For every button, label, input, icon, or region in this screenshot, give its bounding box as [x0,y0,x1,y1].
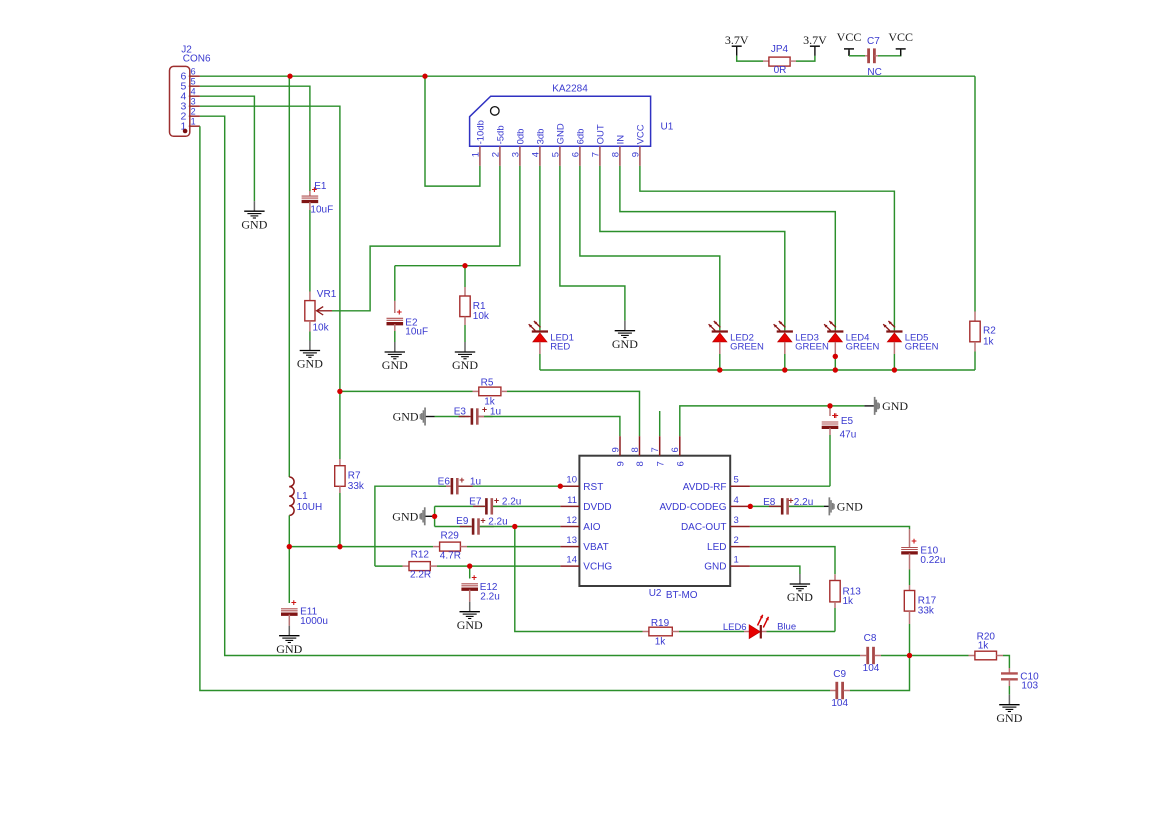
ground GND R1 [452,342,478,372]
svg-text:+: + [471,572,477,583]
net flag GND E7/E9 [392,507,425,525]
node junction LED4 lead [833,354,838,359]
wire U1 pin8 to LED4 [620,166,835,331]
svg-text:6: 6 [571,152,582,157]
svg-text:1k: 1k [978,641,990,652]
svg-text:CON6: CON6 [183,53,211,64]
wire E1 to VR1 [309,210,311,292]
wire U2 pin7 stub [659,411,661,436]
svg-text:10k: 10k [313,323,330,334]
svg-text:JP4: JP4 [771,44,789,55]
resistor R29 4.7R [433,531,467,562]
svg-text:10UH: 10UH [297,502,323,513]
svg-text:C9: C9 [833,669,846,680]
wire R1 branch [464,266,466,287]
wire LED6 to R13 column [767,631,836,633]
wire to GND flag E5 [864,405,874,407]
svg-text:3: 3 [191,96,196,106]
LED LED5 GREEN [883,321,938,370]
resistor R17 33k [904,585,936,624]
svg-text:1k: 1k [983,336,995,347]
capacitor E5 47u [822,406,857,486]
node junction R1 top [462,263,467,268]
node junction E12 top [467,564,472,569]
wire R19 to LED6 [679,631,744,633]
svg-text:VCC: VCC [635,124,646,144]
wire L1 bottom [288,515,290,546]
svg-text:9: 9 [610,447,621,452]
wire R13 to LED6 row [834,608,836,632]
svg-text:3.7V: 3.7V [725,33,749,47]
svg-text:R2: R2 [983,326,996,337]
capacitor C7 NC [865,36,882,78]
svg-text:1: 1 [191,116,196,126]
wire J2 pin5 to E1 [200,86,310,191]
node junction rail x894 [892,367,897,372]
LED LED4 GREEN [824,321,879,370]
power VCC right [888,30,913,56]
wire U2 pin3 to E10 [750,527,910,530]
svg-text:R19: R19 [651,618,670,629]
wire R29 to U2 pin13 [467,546,560,548]
wire C10 to GND [1008,686,1010,695]
power 3.7V right [803,33,827,56]
svg-text:GND: GND [452,358,478,372]
svg-text:E5: E5 [841,416,854,427]
svg-text:OUT: OUT [595,124,606,144]
wire U2 pin1 to GND [750,566,800,574]
resistor JP4 0R [763,44,796,76]
svg-text:RST: RST [583,482,603,493]
svg-text:1: 1 [734,555,739,566]
svg-text:-10db: -10db [475,120,486,144]
svg-text:GREEN: GREEN [795,341,829,352]
svg-text:GND: GND [555,123,566,144]
svg-text:LED: LED [707,542,726,553]
svg-text:R7: R7 [348,471,361,482]
svg-text:AVDD-CODEG: AVDD-CODEG [659,502,726,513]
node junction E5 top [827,403,832,408]
wire U1 pin1 to VCC rail [425,76,480,186]
wire U1 pin9 to LED5 [640,166,895,331]
svg-text:NC: NC [867,67,881,78]
svg-text:2.2u: 2.2u [502,497,521,508]
svg-text:GND: GND [241,217,267,231]
ground GND J2 pin4 [241,201,267,231]
wire E10 to R17 [909,570,911,586]
ground GND U1 pin5 [612,321,638,351]
wire R5 to U2 pin8 [507,391,640,436]
svg-text:E1: E1 [314,181,327,192]
svg-text:2: 2 [491,152,502,157]
capacitor E3 1u [454,404,501,424]
net flag GND E3 [393,408,426,426]
svg-text:7: 7 [591,152,602,157]
wire U1 pin2 to VR1 wiper [332,166,500,311]
wire E5 to U2 pin5 [750,485,830,487]
wire junction to R20 [910,655,969,657]
svg-text:GND: GND [612,337,638,351]
resistor R5 1k [340,378,507,408]
svg-text:VBAT: VBAT [583,542,608,553]
svg-text:2.2u: 2.2u [480,592,499,603]
node junction GND E7/E9 [432,514,437,519]
svg-text:+: + [459,475,464,485]
svg-text:4: 4 [531,152,542,157]
svg-text:E8: E8 [763,497,776,508]
svg-text:GND: GND [837,500,863,514]
svg-text:Blue: Blue [777,621,796,632]
wire U1 pin3 to R1/E2 [395,166,520,266]
svg-text:VCC: VCC [888,30,913,44]
svg-text:14: 14 [566,555,577,566]
capacitor E2 10uF [387,266,429,342]
svg-text:DVDD: DVDD [583,502,611,513]
svg-text:-5db: -5db [495,125,506,144]
wire R17 to C8 junction [909,624,911,656]
svg-text:10: 10 [566,475,577,486]
svg-text:1k: 1k [843,596,855,607]
wire LED bottom rail [540,369,975,371]
wire R20 to C10 [1003,656,1009,669]
wire L1 top [288,76,290,477]
wire R12 to U2 pin14 [437,565,560,567]
svg-text:1k: 1k [655,637,667,648]
potentiometer VR1 10k [305,289,337,334]
capacitor E1 10uF [302,181,334,216]
svg-text:9: 9 [616,461,627,466]
svg-text:GND: GND [882,399,908,413]
svg-text:C7: C7 [867,36,880,47]
capacitor E12 2.2u [461,566,499,602]
capacitor E10 0.22u [901,529,945,570]
svg-text:6: 6 [675,461,686,466]
wire U2 pin2 to R13 [750,547,835,575]
svg-text:+: + [397,307,403,318]
node junction AIO [512,524,517,529]
wire U1 pin7 to LED3 [600,166,785,331]
wire C9 to C8 junction [850,656,910,691]
resistor R12 2.2R [375,550,437,581]
wire C8 to junction [881,655,910,657]
svg-text:10uF: 10uF [310,205,333,216]
capacitor E8 2.2u [750,495,824,514]
LED LED1 RED [529,321,574,370]
svg-text:11: 11 [567,495,577,506]
svg-text:6: 6 [191,66,196,76]
ground GND E12 [457,602,483,632]
inductor L1 10UH [289,477,322,515]
svg-text:0db: 0db [515,129,526,145]
ground GND U2 pin1 [787,574,813,604]
svg-text:2.2u: 2.2u [488,517,507,528]
svg-text:GND: GND [276,642,302,656]
wire U2 pin6 to GND row [680,406,865,436]
svg-text:VCHG: VCHG [583,562,612,573]
svg-text:R29: R29 [441,531,460,542]
LED LED3 GREEN [774,321,829,370]
svg-text:103: 103 [1021,680,1038,691]
ground GND E11 [276,626,302,656]
ground GND C10 [996,695,1022,725]
svg-text:GND: GND [393,410,419,424]
svg-text:GND: GND [704,562,726,573]
svg-text:U2: U2 [649,588,662,599]
svg-text:7: 7 [650,447,661,452]
resistor R19 1k [643,618,680,648]
LED LED2 GREEN [709,321,764,370]
svg-text:104: 104 [831,698,848,709]
svg-text:R12: R12 [411,550,430,561]
svg-text:GND: GND [457,618,483,632]
svg-text:+: + [494,495,499,505]
svg-text:2.2u: 2.2u [794,497,813,508]
svg-text:+: + [480,515,485,525]
wire E8 to GND flag [824,505,829,507]
wire E3 to U2 pin9 [484,417,620,437]
svg-text:+: + [291,597,297,608]
svg-text:33k: 33k [918,606,935,617]
svg-text:AVDD-RF: AVDD-RF [683,482,727,493]
wire J2 pin2 to C8 row [200,116,860,655]
node junction R7/VBAT [337,544,342,549]
svg-text:104: 104 [863,663,880,674]
wire J2 pin6 to top rail [200,75,975,77]
wire E7/E9 vertical [434,506,436,526]
capacitor E11 1000u [281,597,328,627]
power 3.7V left [725,33,749,56]
wire J2 pin3 column [200,106,340,459]
node junction top rail x425 [422,74,427,79]
svg-text:GREEN: GREEN [846,341,880,352]
svg-text:2: 2 [191,106,196,116]
svg-text:6db: 6db [575,129,586,145]
svg-text:10k: 10k [473,311,490,322]
svg-text:3: 3 [511,152,522,157]
wire L1 to E11 [288,547,290,603]
svg-text:VR1: VR1 [317,289,337,300]
wire GND flag to junction [426,515,435,517]
wire 3.7V to JP4 [737,56,763,61]
svg-text:L1: L1 [297,491,309,502]
wire VR1 to GND [309,321,311,341]
svg-text:13: 13 [566,535,577,546]
svg-text:1u: 1u [470,476,481,487]
capacitor C9 104 [830,669,850,709]
svg-text:5: 5 [551,152,562,157]
wire U1 pin6 to LED2 [580,166,720,331]
capacitor E9 2.2u [435,515,561,534]
svg-text:1000u: 1000u [300,616,328,627]
svg-text:E9: E9 [456,516,469,527]
net flag GND E5 [874,397,909,415]
wire J2 pin4 to GND [200,96,255,201]
wire VBAT row [289,546,433,548]
svg-text:IN: IN [615,135,626,145]
svg-text:8: 8 [611,152,622,157]
capacitor C10 103 [1001,668,1039,691]
svg-text:4.7R: 4.7R [440,551,461,562]
node junction R5/R7 [337,389,342,394]
node junction rail x835 [833,367,838,372]
wire AIO to R19 row [515,527,643,632]
resistor R2 1k [970,312,996,371]
svg-text:5: 5 [734,475,739,486]
svg-text:12: 12 [566,515,577,526]
svg-text:GND: GND [996,711,1022,725]
svg-text:E3: E3 [454,406,467,417]
svg-text:+: + [788,495,793,505]
svg-text:1u: 1u [490,406,501,417]
svg-text:4: 4 [734,495,739,506]
svg-text:E7: E7 [469,496,482,507]
wire J2 pin1 to C9 row [200,126,830,690]
wire R2 column top [974,76,976,311]
svg-text:GREEN: GREEN [730,341,764,352]
wire R7 to VBAT row [339,493,341,547]
svg-text:6: 6 [670,447,681,452]
LED LED6 Blue [723,615,796,639]
svg-text:10uF: 10uF [405,327,428,338]
capacitor E6 1u [438,475,561,494]
svg-text:LED6: LED6 [723,622,747,633]
wire U1 pin4 to LED1 [539,166,541,331]
junction dots overlay [287,74,912,659]
wire VCC to C7 [849,51,865,56]
svg-text:+: + [482,404,487,414]
net flag GND E8 [829,497,864,515]
svg-text:4: 4 [191,86,196,96]
svg-text:9: 9 [631,152,642,157]
resistor R13 1k [830,574,861,608]
svg-text:3: 3 [734,515,739,526]
connector J2 CON6 [170,45,212,137]
svg-text:33k: 33k [348,481,365,492]
op-amp U1 KA2284 [470,84,674,166]
capacitor C8 104 [860,633,881,674]
IC U2 BT-MO [560,436,750,601]
svg-text:U1: U1 [661,122,674,133]
svg-text:0.22u: 0.22u [920,555,945,566]
ground GND E2 [382,342,408,372]
svg-text:BT-MO: BT-MO [666,590,698,601]
svg-text:VCC: VCC [837,30,862,44]
svg-text:C8: C8 [864,633,877,644]
svg-text:7: 7 [655,461,666,466]
node junction U2 pin10 [558,484,563,489]
svg-text:2.2R: 2.2R [410,570,431,581]
svg-text:RED: RED [550,341,570,352]
resistor R1 10k [460,287,490,342]
node junction top rail x290 [287,74,292,79]
svg-text:R5: R5 [481,378,494,389]
svg-text:+: + [833,410,838,420]
svg-text:GND: GND [787,590,813,604]
svg-text:1: 1 [471,152,482,157]
svg-text:5: 5 [191,76,196,86]
svg-text:47u: 47u [840,430,857,441]
wire E6 to R12 column [375,486,446,566]
node junction C8/R17/R20/C9 [907,653,912,658]
wire C7 to VCC right [878,51,901,56]
wire U1 pin5 to GND [560,166,625,321]
capacitor E7 2.2u [435,495,561,514]
node junction rail x784 [782,367,787,372]
svg-text:8: 8 [630,447,641,452]
svg-text:2: 2 [734,535,739,546]
svg-text:GND: GND [392,510,418,524]
node junction U2 pin4 [748,504,753,509]
wire JP4 to 3.7V right [796,56,815,61]
node junction L1 bottom [287,544,292,549]
svg-text:3.7V: 3.7V [803,33,827,47]
svg-text:AIO: AIO [583,522,600,533]
wire GND flag to E3 [426,416,465,418]
power VCC left [837,30,862,56]
svg-text:GND: GND [382,358,408,372]
svg-text:+: + [911,536,917,547]
resistor R7 33k [335,459,365,493]
svg-text:KA2284: KA2284 [552,84,588,95]
svg-text:DAC-OUT: DAC-OUT [681,522,727,533]
svg-text:3db: 3db [535,129,546,145]
ground GND VR1 [297,341,323,371]
svg-text:GREEN: GREEN [905,341,939,352]
node junction rail x719 [717,367,722,372]
resistor R20 1k [969,632,1004,660]
svg-text:GND: GND [297,357,323,371]
svg-text:8: 8 [635,461,646,466]
svg-text:0R: 0R [774,65,787,76]
